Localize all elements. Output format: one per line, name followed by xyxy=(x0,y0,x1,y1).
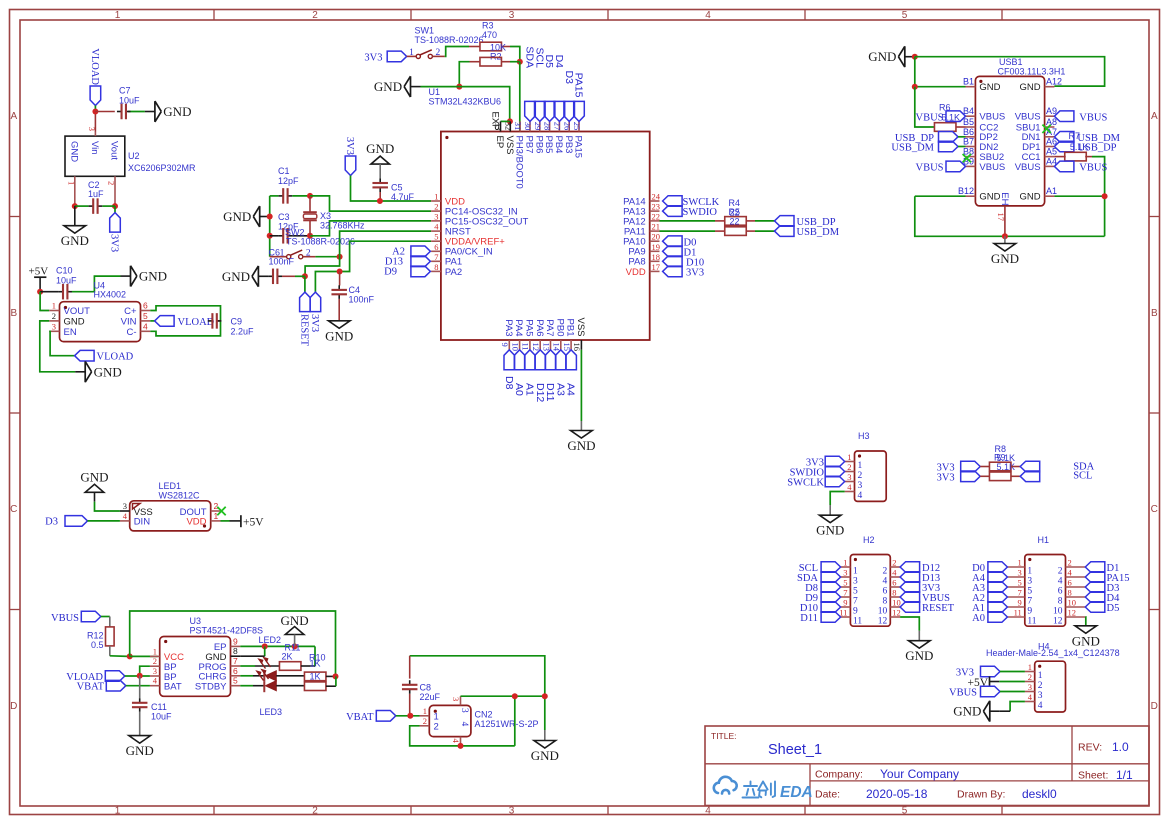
net flag VLOAD (EN) xyxy=(75,350,95,361)
H2 pin 11 xyxy=(841,616,851,618)
capacitor C2 xyxy=(75,205,89,207)
svg-text:VBUS: VBUS xyxy=(979,112,1005,123)
svg-text:2: 2 xyxy=(1058,566,1063,576)
svg-text:PB1: PB1 xyxy=(565,319,576,337)
svg-text:Vout: Vout xyxy=(109,141,120,160)
net flag D1 (PA9) xyxy=(663,246,683,257)
U1 pin 1 VDD xyxy=(431,200,441,202)
net flag D5 (H1) xyxy=(1085,602,1105,613)
wire BP pins tied xyxy=(140,666,150,676)
svg-text:C11: C11 xyxy=(151,702,167,712)
svg-text:U3: U3 xyxy=(190,616,202,626)
net flag D1 (H1) xyxy=(1085,562,1105,573)
svg-text:6: 6 xyxy=(892,578,896,588)
svg-text:R3: R3 xyxy=(482,21,494,31)
node +5V junction xyxy=(37,289,43,295)
svg-text:A: A xyxy=(10,111,17,122)
wire VDDA line xyxy=(315,241,431,292)
svg-text:2: 2 xyxy=(1068,558,1072,568)
svg-text:LED1: LED1 xyxy=(159,481,182,491)
H2 pin 1 xyxy=(841,566,851,568)
net flag VLOAD xyxy=(90,86,101,106)
svg-text:3V3: 3V3 xyxy=(309,314,320,332)
svg-text:R12: R12 xyxy=(87,631,104,641)
svg-text:5: 5 xyxy=(143,311,148,321)
svg-text:Date:: Date: xyxy=(815,789,840,801)
svg-text:3: 3 xyxy=(153,666,157,676)
svg-text:22: 22 xyxy=(652,211,661,221)
no-connect X (B8 SBU2) xyxy=(963,154,971,162)
net flag 3V3 (U2 out) xyxy=(114,206,116,213)
no-connect X (DOUT) xyxy=(217,507,225,515)
svg-text:2: 2 xyxy=(312,806,318,817)
svg-text:GND: GND xyxy=(126,743,154,758)
CN2 pin 3 top xyxy=(460,696,462,705)
svg-text:10: 10 xyxy=(892,598,901,608)
svg-text:2: 2 xyxy=(892,558,896,568)
wire 3V3 to VDD pin1 xyxy=(351,176,432,202)
node C4 junction xyxy=(337,269,343,275)
ground flag GND (U4) xyxy=(75,371,85,373)
svg-text:CF003.11L3.3H1: CF003.11L3.3H1 xyxy=(998,67,1066,77)
svg-text:A3: A3 xyxy=(554,383,566,396)
H1 pin 12 xyxy=(1066,616,1086,618)
USB1 pin A6 DP1 xyxy=(1045,146,1055,148)
wire C5 to VDD line xyxy=(379,192,381,201)
svg-text:1/1: 1/1 xyxy=(1116,768,1133,782)
svg-text:1uF: 1uF xyxy=(88,189,104,199)
svg-text:GND: GND xyxy=(139,269,167,284)
svg-text:PB5: PB5 xyxy=(543,136,554,154)
svg-text:10: 10 xyxy=(1068,598,1077,608)
ground flag GND (H4) xyxy=(990,710,1000,712)
svg-text:Company:: Company: xyxy=(815,769,863,781)
net flag SWCLK (PA14) xyxy=(663,196,683,207)
U4 pin 3 EN xyxy=(49,330,59,332)
U1 pin 33 EP (top) xyxy=(500,121,502,131)
wire R7 to GND rail xyxy=(1092,157,1105,237)
svg-text:4.7uF: 4.7uF xyxy=(391,192,415,202)
svg-text:+5V: +5V xyxy=(243,517,264,529)
net flag VBUS (A9) xyxy=(1054,111,1074,122)
svg-text:GND: GND xyxy=(163,104,191,119)
USB1 pin A4 VBUS xyxy=(1045,165,1055,167)
svg-text:D3: D3 xyxy=(45,517,58,528)
svg-text:PB6: PB6 xyxy=(533,136,544,154)
net flag A3 (H1) xyxy=(988,582,1008,593)
net flag USB_DP (A6) xyxy=(1054,141,1074,152)
svg-text:3: 3 xyxy=(509,806,515,817)
svg-text:VBUS: VBUS xyxy=(1015,112,1041,123)
capacitor C11 xyxy=(139,698,141,703)
node GND junctions xyxy=(267,214,273,220)
svg-text:CN2: CN2 xyxy=(475,710,493,720)
node B1 junction xyxy=(912,84,918,90)
U1 pin 27 PB4 (top) xyxy=(558,121,560,131)
net flag D0 (PA10) xyxy=(663,236,683,247)
wire GND left vertical xyxy=(269,196,271,257)
title block xyxy=(705,726,1149,806)
svg-text:9: 9 xyxy=(1018,598,1022,608)
H4 pin 4 xyxy=(1025,701,1035,703)
net flag D8 (H2) xyxy=(821,582,841,593)
net flag SWDIO (H3) xyxy=(825,466,845,477)
net flag D5 (U1 top) xyxy=(544,101,555,121)
svg-text:2: 2 xyxy=(153,656,157,666)
H1 pin 4 xyxy=(1066,576,1086,578)
U1 pin 18 PA8 xyxy=(650,260,660,262)
ground GND (H3) xyxy=(819,515,841,523)
svg-text:C+: C+ xyxy=(124,306,137,317)
svg-text:TS-1088R-02026: TS-1088R-02026 xyxy=(286,237,355,247)
svg-text:9: 9 xyxy=(500,343,510,347)
USB1 pin A7 DN1 xyxy=(1045,136,1055,138)
svg-text:2: 2 xyxy=(434,202,438,212)
svg-text:8: 8 xyxy=(233,646,238,656)
net flag RESET xyxy=(304,276,306,292)
svg-text:A1251WR-S-2P: A1251WR-S-2P xyxy=(475,719,539,729)
capacitor C8 xyxy=(409,680,411,685)
svg-text:SWCLK: SWCLK xyxy=(787,478,824,489)
wire EN to VLOAD flag xyxy=(49,331,74,355)
U3 pin 9 EP xyxy=(231,645,241,647)
svg-text:30: 30 xyxy=(523,122,533,131)
svg-text:PH3/BOOT0: PH3/BOOT0 xyxy=(514,136,525,189)
H2 pin 7 xyxy=(841,596,851,598)
IC U3 PST4521-42DF8S xyxy=(160,637,231,697)
node BOOT0 junction xyxy=(517,59,523,65)
U3 pin 6 CHRG xyxy=(231,675,241,677)
H4 pin 3 xyxy=(1025,691,1035,693)
svg-text:3: 3 xyxy=(123,501,127,511)
U2 pin 3 Vin xyxy=(94,132,96,137)
svg-text:3V3: 3V3 xyxy=(686,268,704,279)
svg-text:PA3: PA3 xyxy=(503,319,514,336)
wire BP to C11 xyxy=(139,676,141,698)
svg-text:GND: GND xyxy=(61,233,89,248)
H1 pin 5 xyxy=(1007,586,1024,588)
svg-text:A1: A1 xyxy=(524,383,536,396)
svg-text:GND: GND xyxy=(1072,633,1100,648)
H2 pin 2 xyxy=(890,566,900,568)
svg-text:XC6206P302MR: XC6206P302MR xyxy=(128,163,196,173)
svg-text:1: 1 xyxy=(858,461,863,471)
svg-text:12pF: 12pF xyxy=(278,176,299,186)
svg-text:32: 32 xyxy=(503,122,513,131)
net flag D3 (H1) xyxy=(1085,582,1105,593)
USB1 pin A5 CC1 xyxy=(1045,156,1055,158)
U1 pin 8 PA2 xyxy=(431,270,441,272)
net flag A4 (H1) xyxy=(988,572,1008,583)
svg-text:R7: R7 xyxy=(1069,131,1081,141)
svg-text:B1: B1 xyxy=(963,77,974,87)
USB1 pin A1 GND xyxy=(1045,195,1055,197)
svg-text:2: 2 xyxy=(858,471,863,481)
svg-text:5: 5 xyxy=(1018,578,1022,588)
svg-text:GND: GND xyxy=(80,469,108,484)
svg-text:U2: U2 xyxy=(128,151,140,161)
connector CN2 A1251WR-S-2P xyxy=(429,705,471,736)
svg-text:LED3: LED3 xyxy=(260,707,283,717)
svg-text:PA7: PA7 xyxy=(544,319,555,336)
svg-text:A0: A0 xyxy=(972,613,985,624)
U1 pin 30 PB7 (top) xyxy=(529,121,531,131)
svg-text:10uF: 10uF xyxy=(56,276,77,286)
net flag A3 (U1 bottom) xyxy=(556,350,567,370)
svg-text:D5: D5 xyxy=(1107,603,1120,614)
wire VCC rail up and right xyxy=(130,611,336,676)
svg-text:SWDIO: SWDIO xyxy=(683,207,718,218)
H1 pin 7 xyxy=(1007,596,1024,598)
svg-text:1: 1 xyxy=(115,806,121,817)
svg-text:2: 2 xyxy=(306,248,311,258)
svg-text:2: 2 xyxy=(52,311,56,321)
svg-text:2K: 2K xyxy=(282,652,293,662)
svg-text:4: 4 xyxy=(459,722,469,727)
net flag D10 (PA8) xyxy=(663,256,683,267)
ground GND (LED1) xyxy=(85,484,104,492)
net flag A0 (U1 bottom) xyxy=(514,350,525,370)
svg-text:17: 17 xyxy=(996,213,1006,222)
svg-text:Sheet:: Sheet: xyxy=(1078,770,1108,782)
svg-text:R2: R2 xyxy=(490,52,502,62)
net flag A0 (H1) xyxy=(988,612,1008,623)
USB1 pin B8 SBU2 xyxy=(966,156,976,158)
svg-text:5: 5 xyxy=(843,578,847,588)
svg-text:8: 8 xyxy=(883,596,888,606)
svg-text:6: 6 xyxy=(1068,578,1072,588)
U1 pin 2 PC14-OSC32_IN xyxy=(431,210,441,212)
svg-text:Drawn By:: Drawn By: xyxy=(957,789,1005,801)
svg-text:9: 9 xyxy=(853,606,858,616)
capacitor C5 xyxy=(379,178,381,183)
wire GND top rail xyxy=(915,57,1105,86)
U4 pin 5 VIN xyxy=(141,320,151,322)
H4 pin 2 xyxy=(1025,681,1035,683)
svg-text:2: 2 xyxy=(883,566,888,576)
wire R2 to GND xyxy=(470,61,480,63)
svg-text:2: 2 xyxy=(214,501,219,511)
U1 pin 32 VSS (top) xyxy=(509,121,511,131)
USB1 pin A8 SBU1 xyxy=(1045,126,1055,128)
svg-text:C7: C7 xyxy=(119,86,131,96)
net flag SCL (U1 top) xyxy=(535,101,546,121)
svg-text:VLOAD: VLOAD xyxy=(97,352,134,363)
svg-text:7: 7 xyxy=(853,596,858,606)
svg-text:C4: C4 xyxy=(349,285,361,295)
H1 pin 1 xyxy=(1007,566,1024,568)
U1 pin 7 PA1 xyxy=(431,260,441,262)
U1 pin 21 PA11 xyxy=(650,230,660,232)
IC U4 HX4002 xyxy=(60,302,141,342)
svg-text:USB_DM: USB_DM xyxy=(891,143,934,154)
U2 pin 1 GND xyxy=(74,176,76,206)
node GND junction xyxy=(456,84,462,90)
svg-text:Your Company: Your Company xyxy=(880,767,959,781)
U1 pin 11 PA5 (bottom) xyxy=(529,340,531,350)
svg-text:9: 9 xyxy=(1027,606,1032,616)
net flag D12 (U1 bottom) xyxy=(535,350,546,370)
svg-text:7: 7 xyxy=(233,656,238,666)
svg-text:C5: C5 xyxy=(391,183,403,193)
H3 pin 2 xyxy=(845,471,855,473)
svg-text:USB_DM: USB_DM xyxy=(797,227,840,238)
svg-text:3: 3 xyxy=(52,321,56,331)
svg-text:VBUS: VBUS xyxy=(916,113,944,124)
svg-text:1: 1 xyxy=(52,301,56,311)
svg-text:PB7: PB7 xyxy=(524,136,535,154)
net flag D11 (U1 bottom) xyxy=(545,350,556,370)
svg-text:3: 3 xyxy=(434,211,438,221)
svg-text:PA6: PA6 xyxy=(534,319,545,336)
net flag D3 (U1 top) xyxy=(564,101,575,121)
wire SW1 to R3 xyxy=(445,47,469,57)
USB1 pin B7 DN2 xyxy=(966,146,976,148)
USB1 pin A9 VBUS xyxy=(1045,115,1055,117)
H1 pin 6 xyxy=(1066,586,1086,588)
crystal X3 32.768KHz xyxy=(309,196,311,212)
svg-text:1: 1 xyxy=(67,181,77,185)
svg-text:19: 19 xyxy=(652,242,661,252)
node VBAT junction xyxy=(407,713,413,719)
U1 pin 29 PB6 (top) xyxy=(539,121,541,131)
svg-text:A12: A12 xyxy=(1046,77,1062,87)
svg-text:WS2812C: WS2812C xyxy=(159,491,201,501)
svg-text:BAT: BAT xyxy=(164,682,182,693)
net flag PA15 (H1) xyxy=(1085,572,1105,583)
U1 pin 17 VDD xyxy=(650,270,660,272)
CN2 pin 1 xyxy=(420,715,430,717)
net flag SWCLK (H3) xyxy=(825,476,845,487)
svg-text:3V3: 3V3 xyxy=(109,234,120,252)
svg-text:DIN: DIN xyxy=(134,517,151,528)
svg-text:A8: A8 xyxy=(1046,117,1057,127)
net flag A1 (U1 bottom) xyxy=(525,350,536,370)
H2 pin 4 xyxy=(890,576,900,578)
svg-text:PA2: PA2 xyxy=(445,267,462,278)
svg-text:1: 1 xyxy=(153,646,157,656)
svg-text:1: 1 xyxy=(409,48,414,58)
wire R10 to rail xyxy=(326,675,336,677)
svg-text:D4: D4 xyxy=(553,55,565,69)
wire SW2 to NRST xyxy=(315,256,339,258)
svg-text:4: 4 xyxy=(1058,576,1063,586)
svg-text:10: 10 xyxy=(1053,606,1063,616)
svg-text:GND: GND xyxy=(868,49,896,64)
wire EP line xyxy=(240,645,315,647)
svg-text:3: 3 xyxy=(451,697,461,701)
svg-text:3: 3 xyxy=(853,576,858,586)
wire xyxy=(94,106,96,112)
EasyEDA logo xyxy=(714,777,737,794)
wire bottom GND rail xyxy=(915,195,966,197)
CN2 pin 2 xyxy=(420,725,430,727)
svg-text:3: 3 xyxy=(87,127,97,131)
wire pin2 loop bottom xyxy=(410,726,515,746)
svg-text:VBUS: VBUS xyxy=(1079,112,1107,123)
H1 pin 9 xyxy=(1007,606,1024,608)
wire VBUS to R12 xyxy=(101,616,110,618)
svg-text:C: C xyxy=(1151,504,1158,515)
net flag D12 (H2) xyxy=(900,562,920,573)
U1 pin 15 PB1 (bottom) xyxy=(570,340,572,350)
svg-text:TS-1088R-02026: TS-1088R-02026 xyxy=(415,35,484,45)
svg-text:5: 5 xyxy=(434,232,438,242)
net flag USB_DM xyxy=(775,226,795,237)
svg-text:1: 1 xyxy=(434,192,438,202)
svg-text:GND: GND xyxy=(223,209,251,224)
svg-text:25: 25 xyxy=(572,122,582,131)
svg-text:470: 470 xyxy=(482,30,497,40)
ground GND (C11) xyxy=(129,736,151,744)
svg-text:EXP: EXP xyxy=(489,111,500,130)
svg-text:3: 3 xyxy=(459,708,469,713)
svg-text:VBUS: VBUS xyxy=(949,688,977,699)
wire C10 to GND xyxy=(72,276,121,292)
svg-text:deskl0: deskl0 xyxy=(1022,787,1057,801)
svg-text:6: 6 xyxy=(1058,586,1063,596)
svg-text:31: 31 xyxy=(513,122,523,131)
svg-text:C9: C9 xyxy=(231,317,243,327)
svg-text:GND: GND xyxy=(905,648,933,663)
svg-text:H1: H1 xyxy=(1038,535,1050,545)
svg-text:12: 12 xyxy=(1068,608,1077,618)
svg-text:Header-Male-2.54_1x4_C124378: Header-Male-2.54_1x4_C124378 xyxy=(986,648,1120,658)
wire R5 to USB_DM flag xyxy=(747,230,755,232)
svg-text:6: 6 xyxy=(434,242,438,252)
svg-text:GND: GND xyxy=(94,364,122,379)
U1 pin 25 PA15 (top) xyxy=(578,121,580,131)
svg-text:12: 12 xyxy=(1053,616,1063,626)
net flag SDA (H2) xyxy=(821,572,841,583)
svg-text:1K: 1K xyxy=(310,672,321,682)
svg-text:PA5: PA5 xyxy=(524,319,535,336)
svg-text:10uF: 10uF xyxy=(151,712,172,722)
connector H4 xyxy=(1035,661,1066,712)
svg-text:3: 3 xyxy=(509,10,515,21)
svg-text:2: 2 xyxy=(434,722,439,733)
U1 pin 3 PC15-OSC32_OUT xyxy=(431,220,441,222)
wire pin3 line xyxy=(461,696,515,746)
wire C8 to VBAT node xyxy=(409,694,411,716)
U3 pin 7 PROG xyxy=(231,665,241,667)
svg-text:7: 7 xyxy=(843,588,847,598)
svg-text:1: 1 xyxy=(1038,671,1043,681)
svg-text:X3: X3 xyxy=(320,211,331,221)
svg-text:12: 12 xyxy=(892,608,901,618)
svg-text:6: 6 xyxy=(883,586,888,596)
svg-text:GND: GND xyxy=(325,328,353,343)
net flag 3V3 (VDDA) xyxy=(310,292,321,312)
svg-text:11: 11 xyxy=(853,616,862,626)
svg-text:C8: C8 xyxy=(420,683,432,693)
H2 pin 12 xyxy=(890,616,900,618)
wire GND to R6 xyxy=(915,87,935,127)
resistor R12 xyxy=(106,627,115,646)
USB1 pin B4 VBUS xyxy=(966,115,976,117)
wire R12 to VCC xyxy=(109,646,111,656)
U3 pin 4 BAT xyxy=(150,685,160,687)
svg-text:28: 28 xyxy=(543,122,553,131)
wire to VCC pin xyxy=(130,655,158,657)
svg-text:22uF: 22uF xyxy=(420,692,441,702)
svg-text:GND: GND xyxy=(366,141,394,156)
svg-text:1: 1 xyxy=(1028,662,1032,672)
svg-text:GND: GND xyxy=(1019,192,1040,203)
wire H2 pin12 to GND xyxy=(900,617,919,631)
wire NRST to C6/RESET xyxy=(305,257,340,277)
svg-text:+5V: +5V xyxy=(29,266,49,278)
